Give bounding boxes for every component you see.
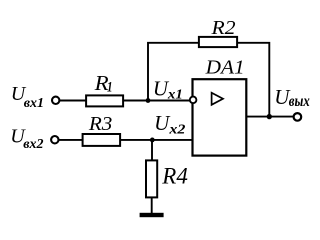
resistor R1: [86, 95, 123, 106]
terminal input 1: [52, 97, 59, 104]
resistor R3: [83, 134, 121, 146]
node A (row1 feedback junction): [146, 98, 151, 103]
svg-text:вх1: вх1: [24, 96, 44, 111]
terminal output: [294, 113, 302, 121]
wire: op-amp output to terminal: [246, 116, 293, 118]
op-amp gain triangle: [212, 93, 223, 105]
node B (row2 R4 junction): [150, 138, 155, 143]
resistor R2: [199, 37, 237, 47]
wire: R4 to ground: [151, 197, 153, 213]
node C (output feedback junction): [267, 114, 272, 119]
wire: R1 to op-amp input circle: [124, 100, 190, 102]
svg-text:R2: R2: [210, 17, 235, 39]
svg-text:вых: вых: [289, 93, 310, 110]
wire: input 2 terminal to R3: [59, 139, 83, 141]
svg-text:х2: х2: [168, 123, 185, 138]
svg-text:х1: х1: [167, 88, 183, 103]
wire: feedback left vertical + to R2: [148, 43, 199, 101]
svg-text:R3: R3: [88, 113, 113, 135]
wire: input 1 terminal to R1: [60, 100, 87, 102]
terminal input 2: [51, 136, 58, 143]
svg-text:R4: R4: [161, 163, 188, 188]
ground: [140, 213, 164, 217]
svg-text:DA1: DA1: [205, 57, 245, 79]
svg-text:вх2: вх2: [23, 137, 43, 152]
resistor R4: [146, 160, 157, 197]
svg-text:1: 1: [107, 80, 113, 96]
wire: R2 right to output vertical: [238, 43, 270, 117]
wire: node x2 down to R4: [151, 140, 153, 161]
op-amp inverting input circle: [190, 97, 197, 104]
op-amp U1 (DA1) body: [193, 79, 247, 155]
wire: R3 to op-amp input 2: [121, 139, 194, 141]
